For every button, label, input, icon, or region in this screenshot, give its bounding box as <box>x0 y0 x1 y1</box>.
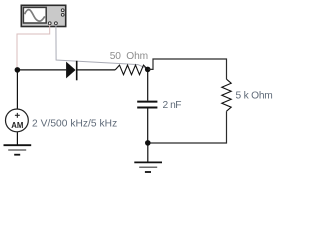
AM source V1 <box>6 109 29 132</box>
resistor R2 5 k Ohm <box>222 79 231 111</box>
wire node B to top rail and 5k resistor <box>148 59 227 79</box>
wire scope channel B (grey) <box>56 25 148 69</box>
ground (left, under AM source) <box>4 145 32 155</box>
oscilloscope XSC1 <box>21 5 65 26</box>
wire R2 bottom to bottom rail <box>148 111 227 143</box>
svg-text:50 Ohm: 50 Ohm <box>110 51 148 62</box>
wire AM source to ground <box>16 132 18 145</box>
wire diode to resistor R1 <box>77 69 116 71</box>
svg-text:2 nF: 2 nF <box>163 100 182 111</box>
capacitor C1 2 nF <box>137 102 157 108</box>
diode D1 <box>66 61 77 81</box>
svg-text:5 k Ohm: 5 k Ohm <box>236 91 273 102</box>
svg-text:AM: AM <box>11 121 23 130</box>
ground (bottom) <box>134 143 162 172</box>
resistor R1 50 Ohm <box>115 65 147 75</box>
label 50 Ohm <box>110 51 148 62</box>
wire scope channel A (pink) <box>17 25 50 68</box>
wire node A to AM source <box>16 70 18 109</box>
node B (junction after R1) <box>145 67 151 73</box>
node C (bottom junction) <box>145 140 151 146</box>
wire node B to capacitor <box>147 69 149 100</box>
node A (junction dot left) <box>15 67 21 73</box>
wire capacitor to node C <box>147 109 149 144</box>
label 2 nF <box>163 100 182 111</box>
label 2 V/500 kHz/5 kHz <box>32 119 117 130</box>
svg-text:2 V/500 kHz/5 kHz: 2 V/500 kHz/5 kHz <box>32 119 117 130</box>
label 5 k Ohm <box>236 91 273 102</box>
wire node A to diode <box>17 69 66 71</box>
